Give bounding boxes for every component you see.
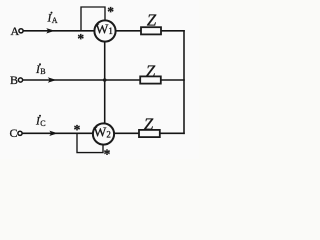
svg-text:C: C xyxy=(10,126,18,140)
wire right vertical bus xyxy=(183,31,185,134)
wire node on B down to W2 top xyxy=(104,80,106,124)
wire W1 bottom to node on B xyxy=(104,42,106,81)
svg-text:*: * xyxy=(74,122,81,137)
svg-text:Z: Z xyxy=(144,115,154,134)
terminal C xyxy=(18,131,22,135)
arrow current C xyxy=(49,131,58,136)
wattmeter W2 xyxy=(93,123,114,144)
wire phase C horizontal xyxy=(22,132,93,134)
wire Z to right bus (B) xyxy=(161,79,184,81)
wire Z to right bus (C) xyxy=(160,132,184,134)
svg-text:*: * xyxy=(107,4,114,19)
svg-text:A: A xyxy=(11,24,20,38)
svg-text:B: B xyxy=(40,67,45,76)
svg-text:C: C xyxy=(40,119,45,128)
resistor Z (phase A) xyxy=(141,27,161,34)
resistor Z (phase C) xyxy=(139,130,160,137)
svg-text:*: * xyxy=(104,146,111,159)
wire Z to right bus (A) xyxy=(161,30,184,32)
svg-text:A: A xyxy=(52,16,58,25)
wire phase A horizontal xyxy=(23,30,94,32)
wire W1 right to Z xyxy=(116,30,142,32)
arrow current B xyxy=(48,77,57,82)
wire phase B horizontal xyxy=(23,79,140,81)
svg-text:B: B xyxy=(10,73,18,87)
wire W2 voltage-coil loop xyxy=(77,133,103,152)
resistor Z (phase B) xyxy=(140,76,161,83)
svg-text:Z: Z xyxy=(147,11,157,30)
wire W1 voltage-coil loop xyxy=(81,7,105,31)
arrow current A xyxy=(46,28,55,33)
node junction on B line xyxy=(103,78,107,82)
wire W2 right to Z xyxy=(114,132,139,134)
svg-text:Z: Z xyxy=(146,62,156,81)
terminal A xyxy=(19,29,23,33)
wattmeter W1 xyxy=(94,20,115,41)
svg-text:*: * xyxy=(77,31,84,46)
terminal B xyxy=(18,78,22,82)
